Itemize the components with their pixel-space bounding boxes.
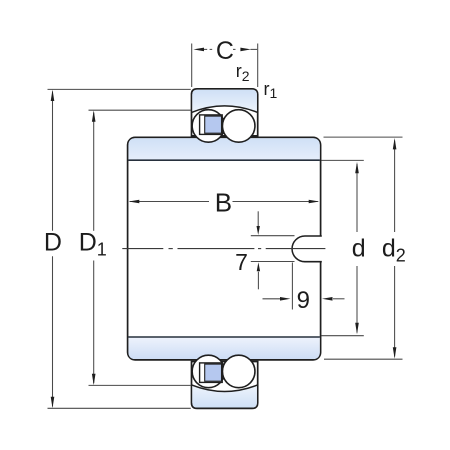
D dimension line xyxy=(52,92,54,231)
arrowheads xyxy=(51,48,397,409)
D1 arrows xyxy=(92,110,96,121)
7 arrow stems xyxy=(257,211,259,227)
centerline xyxy=(122,248,325,250)
D arrows xyxy=(51,90,55,101)
bottom outer ring assembly (mirrored) xyxy=(192,355,258,408)
bore line upper xyxy=(128,159,320,161)
locking slot notch xyxy=(292,236,322,262)
svg-text:C: C xyxy=(216,37,234,65)
9 arrows xyxy=(280,297,291,301)
svg-text:9: 9 xyxy=(297,287,310,314)
9 extension line xyxy=(291,263,293,310)
inner ring lower section shading xyxy=(128,337,319,359)
d2 arrows xyxy=(393,138,397,149)
svg-text:D: D xyxy=(44,229,62,257)
svg-text:7: 7 xyxy=(235,249,248,275)
d arrows xyxy=(355,162,359,173)
C dimension line xyxy=(204,48,207,50)
7 arrows xyxy=(257,226,260,235)
7 extension lines xyxy=(251,235,295,237)
top outer ring assembly xyxy=(192,89,258,142)
D1 dimension line xyxy=(93,113,95,231)
B dimension line xyxy=(130,201,209,203)
d2 dimension line xyxy=(394,141,396,233)
9 dimension line xyxy=(263,298,282,300)
inner ring upper section shading xyxy=(128,138,319,160)
dimension lines xyxy=(48,44,403,409)
svg-text:d: d xyxy=(352,234,366,262)
B arrows xyxy=(129,200,140,204)
svg-text:B: B xyxy=(215,188,232,218)
inner ring block xyxy=(128,137,321,360)
C extension lines xyxy=(191,44,193,88)
C arrows xyxy=(193,48,204,52)
d dimension line xyxy=(356,164,358,232)
bore line lower xyxy=(128,336,320,338)
